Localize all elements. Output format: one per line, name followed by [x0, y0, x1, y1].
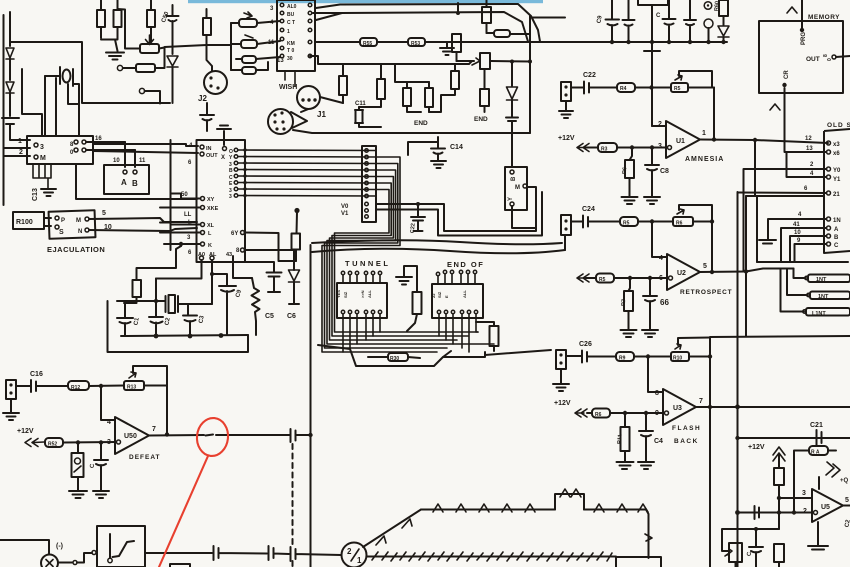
resistor R55 [360, 38, 377, 46]
frame wire [76, 164, 197, 199]
svg-text:C16: C16 [30, 371, 43, 378]
header strip J3 [362, 146, 376, 222]
wire pin4 [101, 386, 115, 420]
svg-text:U3: U3 [673, 405, 682, 412]
svg-text:1: 1 [357, 556, 362, 565]
wire bottom-left input [0, 540, 49, 554]
svg-text:U5: U5 [821, 504, 830, 511]
resistor R5c [596, 274, 614, 283]
J1 flag [291, 112, 307, 128]
ground near X [217, 126, 231, 146]
wire C [795, 244, 827, 262]
capacitor C26 [566, 351, 594, 363]
wire pin2 [738, 512, 814, 514]
ground [41, 189, 56, 196]
resistor R42 [403, 88, 411, 106]
wire CR to x6 [785, 88, 827, 152]
wire y336 [710, 336, 850, 337]
left rail [3, 15, 5, 205]
svg-text:2: 2 [19, 149, 23, 156]
wavy wire upper [312, 240, 562, 244]
svg-text:PRG: PRG [801, 32, 807, 45]
connector J1 [268, 109, 293, 134]
connector P3 [556, 350, 566, 369]
svg-text:EJACULATION: EJACULATION [47, 245, 105, 254]
capacitor C34 [749, 529, 763, 567]
svg-text:R100: R100 [16, 219, 33, 226]
svg-text:R6: R6 [595, 412, 602, 418]
chip U12 [277, 0, 315, 71]
capacitor C23 [291, 429, 311, 442]
svg-text:OLD S: OLD S [827, 122, 850, 129]
wire pin5 [89, 218, 197, 222]
trimmer RT2 [241, 40, 257, 48]
wire pin8 [648, 357, 663, 393]
chip U11 bottom pins [200, 256, 204, 260]
top-left frame wire [10, 42, 170, 103]
svg-text:R3: R3 [601, 147, 608, 153]
diode D6 [507, 87, 518, 100]
capacitor C9b [623, 0, 635, 42]
output wire [700, 140, 828, 144]
svg-text:A0: A0 [198, 252, 205, 258]
dashed rail [292, 444, 294, 545]
hatch marks [372, 552, 612, 561]
svg-text:C21: C21 [810, 422, 823, 429]
svg-text:T 0: T 0 [287, 48, 294, 54]
svg-text:KM: KM [287, 41, 295, 47]
wire [117, 279, 156, 317]
wire arrow horizontal [421, 509, 646, 511]
osc outline box [108, 301, 249, 352]
capacitor C15 [93, 443, 109, 499]
wire [10, 124, 30, 140]
assembly outline bottom [318, 345, 485, 366]
svg-text:R53: R53 [411, 41, 420, 47]
svg-text:8: 8 [655, 390, 659, 397]
resistor R3 [598, 143, 617, 152]
junction [735, 404, 740, 409]
svg-text:+12V: +12V [17, 428, 34, 435]
pin PRG [801, 0, 803, 30]
svg-text:30: 30 [287, 56, 293, 62]
wire [45, 76, 79, 136]
resistor R62 [774, 468, 784, 485]
op-amp U5 [812, 489, 843, 522]
ground [440, 42, 454, 55]
resistor R44b [452, 34, 461, 52]
wire [9, 59, 11, 80]
arrow [577, 274, 589, 282]
wire rail [230, 23, 232, 70]
svg-text:1: 1 [18, 138, 22, 145]
chip U11 left pins [201, 197, 205, 201]
capacitor C3 [183, 304, 197, 336]
resistor R50 [480, 89, 489, 106]
TUNNEL top pins [343, 275, 380, 283]
svg-text:S: S [59, 229, 64, 236]
wire pinF [245, 249, 295, 251]
capacitor C16 [16, 380, 43, 392]
svg-text:R5: R5 [599, 277, 606, 283]
feedback loop wire [678, 338, 710, 346]
bus vertical B1 [737, 192, 739, 567]
svg-text:BACK: BACK [674, 438, 699, 445]
svg-text:K: K [208, 243, 212, 249]
capacitor C17 [200, 103, 214, 131]
crystal X1 [158, 296, 212, 312]
wire y61 [491, 60, 530, 63]
trimmer R5 [671, 83, 688, 92]
capacitor C14 [408, 137, 445, 160]
svg-text:+12V: +12V [748, 444, 765, 451]
svg-text:OUT: OUT [206, 153, 218, 159]
svg-text:(-): (-) [56, 543, 63, 550]
left feed wires [171, 140, 201, 250]
svg-text:R6: R6 [676, 221, 683, 227]
ground [106, 53, 124, 60]
resistor R71 [114, 10, 122, 27]
wire x746 [745, 196, 747, 336]
diode D1 [6, 48, 14, 59]
svg-text:4: 4 [659, 255, 663, 262]
inductor L1 [45, 67, 60, 84]
capacitor C2 [149, 316, 163, 336]
resistor R100 [13, 212, 44, 229]
wire from pin A0 [156, 260, 202, 279]
svg-text:5: 5 [102, 210, 106, 217]
svg-text:R30: R30 [390, 356, 399, 362]
partial box bottom edge [170, 564, 190, 567]
wire [4, 148, 31, 156]
svg-text:50: 50 [181, 192, 188, 198]
END OF bottom pins [437, 310, 440, 313]
svg-text:C24: C24 [582, 206, 595, 213]
wire Y0 [744, 169, 827, 272]
svg-text:ALL: ALL [367, 290, 372, 298]
wire stub [457, 3, 459, 13]
output wire y553 [145, 552, 212, 554]
END OF top pins [438, 274, 475, 284]
op-amp U2 [667, 254, 700, 290]
svg-text:U1: U1 [676, 138, 685, 145]
TUNNEL bottom pins [341, 310, 344, 313]
connector INT1 [808, 275, 850, 283]
svg-text:C2: C2 [844, 519, 850, 528]
svg-text:DEFEAT: DEFEAT [129, 454, 161, 461]
chevrons on horizontal [433, 504, 648, 512]
capacitor C19a [663, 0, 676, 42]
resistor R41 [377, 79, 385, 99]
trimmer R63 [729, 543, 742, 562]
connector INT3 [806, 308, 850, 316]
svg-text:1: 1 [287, 29, 290, 35]
svg-text:X: X [221, 155, 225, 161]
capacitor C22 [571, 82, 594, 94]
svg-text:>>N: >>N [360, 290, 365, 298]
wire U2 out to INT brackets [746, 269, 794, 272]
chip U10 [27, 136, 93, 164]
feedback loop wire [679, 71, 714, 140]
svg-text:C: C [834, 243, 839, 249]
svg-text:A: A [121, 178, 127, 187]
resistor R57 [494, 30, 510, 37]
wire y196 [746, 195, 824, 197]
svg-text:3: 3 [40, 144, 44, 151]
svg-text:R4: R4 [620, 86, 627, 92]
resistor R9 [616, 352, 634, 361]
wire [512, 206, 536, 228]
op-amp U50 [115, 417, 149, 454]
connector P1 [561, 82, 571, 101]
divider node 2/1 [342, 543, 367, 567]
wire [9, 93, 11, 116]
svg-text:C26: C26 [579, 341, 592, 348]
solid rail x310 [310, 245, 312, 567]
svg-text:BU: BU [287, 12, 295, 18]
wire [22, 69, 42, 136]
battery B1 [2, 118, 19, 124]
chip U10 bottom pins [33, 164, 51, 188]
chip U11 pin 6Y [241, 231, 245, 235]
svg-text:END OF: END OF [447, 260, 484, 269]
svg-text:WISH: WISH [279, 84, 297, 91]
limiter box [97, 526, 145, 567]
svg-text:FLASH: FLASH [672, 425, 701, 432]
terminal [139, 88, 144, 93]
capacitor C19b [684, 0, 696, 42]
wire Y1 branch [787, 152, 827, 177]
wire to U11 [93, 144, 198, 153]
wire corner down [646, 510, 649, 559]
svg-text:B: B [132, 179, 138, 188]
svg-text:ALL: ALL [462, 290, 467, 298]
svg-text:C4: C4 [654, 438, 663, 445]
resistor R22 [292, 234, 301, 250]
resistor R51 [482, 7, 491, 23]
resistor R61 [809, 446, 828, 455]
svg-text:B: B [229, 168, 233, 174]
connector WISH [297, 86, 320, 109]
svg-text:11: 11 [139, 158, 146, 164]
svg-text:OUT: OUT [806, 56, 820, 63]
wire B [790, 236, 827, 262]
wire pin2 [652, 42, 666, 126]
wire to retro input [564, 236, 566, 250]
resistor R5b [620, 217, 638, 226]
scanner blue strip [188, 0, 543, 3]
svg-text:x3: x3 [833, 142, 840, 148]
svg-text:22: 22 [431, 293, 436, 298]
capacitor C30 [214, 546, 268, 560]
wire y262 [757, 261, 848, 263]
capacitor C1 [117, 301, 133, 336]
wire from pin AL [211, 260, 213, 304]
svg-text:5: 5 [703, 263, 707, 270]
svg-text:R6: R6 [622, 167, 629, 175]
wire diode feed [511, 63, 513, 86]
svg-text:XY: XY [207, 197, 215, 203]
capacitor C4 [638, 413, 654, 469]
svg-text:6Y: 6Y [231, 231, 238, 237]
svg-text:7: 7 [699, 398, 703, 405]
svg-text:7: 7 [152, 426, 156, 433]
MEMORY box [759, 21, 843, 93]
resistor R14 [45, 438, 63, 447]
resistor R31 [242, 67, 256, 74]
svg-text:8: 8 [823, 54, 829, 57]
resistor R46 [388, 353, 408, 361]
svg-text:R52: R52 [48, 442, 57, 448]
svg-text:AL: AL [209, 252, 217, 258]
arrow [25, 439, 44, 447]
svg-text:M: M [76, 218, 81, 224]
svg-text:3: 3 [229, 194, 232, 200]
wire V0 loop [376, 187, 536, 231]
svg-text:x6: x6 [833, 151, 840, 157]
output wire [149, 434, 290, 437]
svg-text:C13: C13 [32, 188, 39, 201]
svg-text:N: N [78, 229, 82, 235]
svg-text:+Q: +Q [840, 478, 849, 484]
capacitor C21 [817, 430, 822, 445]
op-amp U3 [663, 389, 696, 425]
connector P4 [6, 380, 16, 399]
svg-text:10: 10 [113, 158, 120, 164]
wire [301, 97, 343, 112]
wire 21 to bus [738, 192, 827, 195]
opamp ground [808, 522, 828, 550]
multiplier node X [41, 555, 58, 567]
top outline curve 1 [316, 4, 540, 42]
chip U11 [197, 140, 246, 262]
resistor R47 [490, 326, 499, 346]
chip U11 pin F [241, 248, 245, 252]
thermistor R15 [72, 453, 84, 477]
capacitor C7 [212, 274, 236, 335]
top outline curve 2 [316, 12, 528, 42]
svg-text:C8: C8 [660, 168, 669, 175]
box A B [104, 165, 149, 194]
svg-text:1: 1 [702, 130, 706, 137]
capacitor C31 [269, 546, 290, 560]
END OF bottom pin wires [439, 314, 478, 352]
red annotation ellipse [195, 416, 230, 457]
bracket wires [781, 269, 809, 312]
bus vertical B2 [709, 338, 711, 567]
svg-text:1NT: 1NT [816, 277, 827, 283]
svg-text:END: END [474, 116, 488, 123]
wire to flash input [485, 350, 551, 355]
resistor R70 [97, 10, 105, 27]
svg-text:R10: R10 [673, 356, 682, 362]
svg-text:A: A [834, 227, 839, 233]
capacitor C32 [291, 547, 342, 561]
junction dots on bus [610, 40, 614, 44]
wire x652 [651, 5, 653, 126]
out arrow [826, 462, 840, 477]
svg-text:R60: R60 [714, 1, 721, 12]
TUNNEL bottom pin wires [343, 314, 380, 352]
svg-text:+12V: +12V [558, 135, 575, 142]
svg-text:V1: V1 [341, 211, 349, 217]
arrow [577, 144, 589, 152]
wire [207, 35, 213, 71]
output wire [696, 406, 850, 408]
resistor R74 [136, 64, 155, 72]
diode D7 [718, 26, 729, 37]
wire pin10 [89, 228, 197, 231]
trimmer RT3 [480, 53, 490, 69]
wire IN with ground [759, 219, 827, 244]
wire A [781, 228, 827, 262]
wire [125, 142, 135, 167]
capacitor C50 [167, 5, 179, 54]
svg-text:3: 3 [802, 490, 806, 497]
wire [58, 562, 72, 564]
connector J2 [204, 71, 227, 94]
svg-text:E: E [444, 295, 449, 298]
resistor R4 [617, 83, 635, 92]
svg-text:10: 10 [104, 224, 112, 231]
connector P2 [561, 215, 571, 235]
svg-text:2: 2 [658, 121, 662, 128]
svg-text:J2: J2 [198, 94, 207, 103]
feedback loop wire [679, 205, 712, 272]
capacitor C9a [606, 0, 620, 42]
svg-text:R9: R9 [619, 356, 626, 362]
svg-text:B: B [834, 235, 839, 241]
capacitor C10 [411, 204, 425, 231]
capacitor C11 [355, 107, 381, 127]
wire y64 [310, 56, 472, 64]
wire y438 [738, 437, 850, 439]
svg-text:P: P [61, 218, 65, 224]
svg-text:M: M [515, 185, 520, 191]
svg-text:END: END [414, 120, 428, 127]
capacitor 66 [642, 278, 658, 337]
terminal T1 [704, 2, 712, 10]
resistor R43 [425, 88, 433, 107]
svg-text:AMNESIA: AMNESIA [685, 156, 724, 163]
trimmer R10 [671, 352, 689, 361]
resistor R7 [624, 291, 633, 311]
ejaculation box [49, 210, 96, 239]
diode D2 [6, 82, 14, 93]
svg-text:C14: C14 [450, 144, 463, 151]
wire x755 [754, 140, 756, 196]
op-amp U1 [666, 121, 700, 158]
wire stub [531, 17, 565, 19]
bottom box [616, 557, 661, 567]
svg-text:C: C [656, 13, 661, 19]
box END OF [432, 284, 483, 318]
svg-text:SIZ: SIZ [437, 291, 442, 298]
wire bundle from header [322, 157, 437, 352]
svg-text:V0: V0 [341, 204, 349, 210]
svg-text:M: M [40, 155, 46, 162]
ground between boxes [396, 266, 416, 285]
svg-text:J1: J1 [317, 110, 326, 119]
svg-text:R55: R55 [363, 41, 372, 47]
svg-text:13: 13 [277, 58, 284, 64]
up arrow [773, 447, 785, 461]
svg-text:R7: R7 [621, 299, 628, 307]
red annotation line [159, 456, 208, 567]
svg-text:66: 66 [660, 298, 669, 307]
svg-text:Y1: Y1 [833, 177, 841, 183]
box TUNNEL [337, 283, 387, 318]
